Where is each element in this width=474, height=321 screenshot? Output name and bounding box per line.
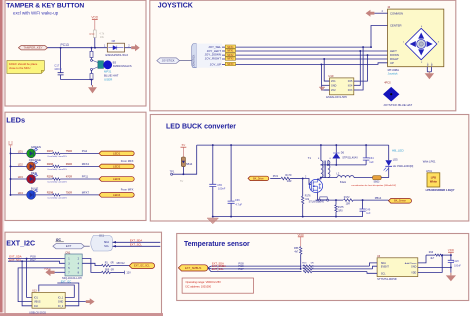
svg-text:SCL: SCL [104,245,109,248]
svg-text:IO_1: IO_1 [58,296,64,299]
junction D6 rail [335,144,337,146]
USBLC6 right stub row1 up [39,285,75,297]
svg-text:100nF: 100nF [454,265,461,268]
svg-text:1R0: 1R0 [338,210,343,213]
wire D6 anode horizontal [320,164,366,166]
svg-text:JOYSTICK: JOYSTICK [193,54,196,66]
svg-text:From MFX: From MFX [121,159,134,163]
svg-text:GND: GND [331,84,337,87]
wire resistor to net label LED1 [60,152,99,154]
MOSFET body diode [319,183,321,189]
net label BK_Sense oval [389,199,412,204]
svg-text:0R: 0R [111,268,114,271]
wire pulldown to bottom rail [302,204,304,217]
svg-text:BLUE: BLUE [31,187,38,191]
resistor R1 i2c [102,264,111,266]
wire C49 branch upper [362,200,364,209]
joystick arrow up [418,33,424,39]
wire LED to resistor R297 [36,152,53,154]
MOSFET Q2 circle [309,179,322,192]
LED LD5 symbol [385,160,392,166]
wire JOY_LEFT row [222,50,388,52]
section frame EXT_I2C [5,232,162,314]
svg-text:VDD: VDD [298,233,305,237]
svg-text:I/O3: I/O3 [348,89,353,92]
wire JOY_SEL to CENTER pin [371,26,388,48]
resistor SB9 i2c [102,271,111,273]
pin circle button top [91,59,93,61]
wire FB05 to LED branch [381,177,389,179]
wire R175 branch [335,200,337,205]
svg-text:IO2: IO2 [34,305,39,308]
power arrow VDD CN2 [45,269,54,277]
ESD tap wire UP down to U10 left pin3 [321,64,329,90]
TVS diode D8 symbol [113,46,117,50]
svg-text:LED BUCK converter: LED BUCK converter [166,124,236,131]
wire temp row EXT_SCL right [312,271,367,273]
svg-text:R297: R297 [47,149,54,153]
note operating range box [182,278,253,293]
resistor R16 body [435,254,442,256]
svg-text:I/O1: I/O1 [331,80,336,83]
wire LED to rail [388,145,390,160]
harness entry shape [192,44,197,68]
wire L2 to FB05 [354,177,373,179]
wire temp row EXT_SMBA right [312,268,373,270]
capacitor C66 [228,201,235,203]
svg-text:VDD: VDD [91,16,98,20]
svg-text:LD1: LD1 [18,150,24,154]
wire temp row2 jog to EVENT pin [373,266,378,269]
junction SDA drop [26,258,28,260]
svg-text:COMMON: COMMON [390,11,403,15]
U10 left pin stubs [324,80,329,82]
wire R56 to row2 [300,254,302,269]
wire harness label to harness [180,60,192,62]
ground temp sensor [450,273,452,276]
junction GND C123 line [450,266,452,268]
svg-text:ORANGE: ORANGE [29,158,41,162]
capacitor C17 [58,73,64,75]
svg-text:LEDs: LEDs [6,115,25,124]
svg-text:PF11: PF11 [82,175,89,179]
wire LED to resistor R296 [36,165,53,167]
svg-text:PG2: PG2 [82,149,88,153]
svg-text:JOY_UP: JOY_UP [210,63,221,67]
junction SCL drop [21,260,23,262]
LED LD1 GREEN circle [27,149,36,158]
offsheet arrow TAMPER right [131,44,140,51]
svg-text:VDD: VDD [411,271,416,274]
wire rail to LED LD1 [11,152,27,154]
wire VDD arrow to CN2 [55,271,65,273]
net label EXT_SMBUS oval [178,265,208,271]
svg-text:I/O2: I/O2 [331,89,336,92]
svg-text:SB14: SB14 [186,162,193,166]
svg-text:LED2: LED2 [113,164,121,168]
resistor R179 [281,177,290,180]
svg-text:Curr=5mA, Lum=25%: Curr=5mA, Lum=25% [47,155,67,158]
svg-text:EVENT: EVENT [381,266,390,269]
svg-text:TAMPER_KEY: TAMPER_KEY [23,46,42,50]
junction bottom C65 [212,216,214,218]
svg-text:R299: R299 [47,175,54,179]
CN2 right wire row2 to R1 [82,263,101,265]
wire C66 branch lower [230,203,232,216]
freewheel diode D6 vertical [335,145,337,153]
MOSFET Q2 drain source stubs [313,179,317,192]
svg-text:close to the MCU: close to the MCU [9,66,30,70]
wire SB9 right stub [111,271,125,273]
svg-text:63uH: 63uH [340,180,346,184]
svg-text:U10: U10 [328,74,333,78]
junction R56 row2 [300,268,302,270]
power port LEDs rail [9,141,13,148]
svg-text:4k7: 4k7 [430,257,435,260]
wire R16 row [426,254,435,256]
wire rail to LED LD2 [11,165,27,167]
LED LD2 arrows [34,161,38,164]
net label MFX0 [225,62,235,65]
wire GND row to offsheet arrow [65,301,86,303]
top rail wire [197,144,389,146]
wire fan oval to rows [208,266,211,268]
svg-text:R16: R16 [429,251,434,254]
junction VDD C123 [450,254,452,256]
svg-text:I/O4: I/O4 [348,84,353,87]
junction C65 rail [212,144,214,146]
svg-text:EXT_SCL: EXT_SCL [130,243,142,247]
LED LD1 arrows [34,148,38,151]
wire EXT_SCL to CN2 [8,261,65,263]
junction R175 bottom [335,216,337,218]
wire R175 to bottom rail [335,212,337,217]
svg-text:C65: C65 [217,183,222,187]
svg-text:LD4: LD4 [18,191,24,195]
wire D6 anode down [335,159,337,165]
svg-text:USER: USER [104,78,113,82]
LED LD4 arrows [34,190,38,193]
svg-text:MFX12: MFX12 [117,262,126,265]
joystick arrow right [427,41,433,47]
svg-text:MFX1: MFX1 [227,51,234,53]
svg-text:PC3: PC3 [273,174,279,178]
node junction bottom [91,79,93,81]
LED LD2 ORANGE circle [27,162,36,171]
U10 right pin stubs [354,80,359,82]
blue hat diamond 4PCS [383,87,399,102]
push button B3 body [98,61,104,69]
junction C64 rail [365,144,367,146]
svg-text:12V: 12V [126,272,131,275]
svg-text:LE CW1L224K[D]: LE CW1L224K[D] [393,164,414,168]
svg-text:IO1: IO1 [34,296,39,299]
ESD tap junction RIGHT [323,58,325,60]
svg-text:CENTER: CENTER [390,24,402,28]
svg-text:GREEN: GREEN [31,145,41,149]
svg-text:With LP01: With LP01 [423,160,436,164]
wire T1 secondary bottom to output node [327,177,329,179]
svg-text:LP01: LP01 [426,170,432,173]
connector CN2 box [65,254,82,276]
harness oval EXT [53,244,85,249]
net label LED4 [99,193,134,198]
wire Addr pin right up [418,255,426,263]
net label MFX4 [225,45,235,48]
wire resistor to net label LED4 [60,194,99,196]
svg-text:C123: C123 [453,260,459,263]
svg-text:From MFX: From MFX [121,187,134,191]
offsheet arrow COMMON left [366,10,375,17]
svg-text:PB14: PB14 [375,196,382,200]
svg-text:MFX3: MFX3 [227,59,234,61]
wire R16 to VDD node [442,254,451,256]
bottom rail wire buck [213,216,363,218]
wire C66 branch upper [230,145,232,201]
wire SB14 to node [182,167,184,175]
svg-text:Joystick: Joystick [388,71,399,75]
joystick center button [417,39,426,48]
wire SCL vertical to USBLC6 IO2 [22,261,32,306]
junction LED rail LD1 [10,152,12,154]
svg-text:White: White [430,180,438,184]
net label MFX3 [225,57,235,60]
svg-text:PC13: PC13 [61,43,69,47]
U10 GND pin ground [319,87,325,90]
temp sensor U11 box [377,258,418,277]
svg-text:0R: 0R [311,268,314,270]
wire rail to T1 primary [320,145,322,160]
junction C49 tap [362,199,364,201]
diode SB14 body [181,157,185,167]
wire diode to offsheet arrow [125,47,132,49]
section frame Temperature sensor [177,234,469,301]
svg-text:SDA: SDA [104,241,109,244]
svg-text:USBLC6-2SC6: USBLC6-2SC6 [29,312,46,315]
svg-text:excl with WIFI wake-up: excl with WIFI wake-up [13,11,59,16]
svg-text:I2C1: I2C1 [99,235,105,238]
junction T1 secondary D6 line [327,164,329,166]
wire 5V to diode SB14 [182,147,184,157]
wire temp row3 jog to SCL pin [367,272,377,274]
svg-text:LD5: LD5 [393,157,398,161]
svg-text:MFX7: MFX7 [82,191,90,195]
ground buck [207,218,219,224]
resistor R11 0R [303,268,312,270]
wire gate node to MOSFET gate [303,179,312,185]
wire source row [316,199,344,201]
svg-text:UP: UP [390,61,394,65]
wire T1 secondary top joins D6 line [327,161,329,165]
svg-text:HB_LED: HB_LED [392,149,405,153]
harness funnel EXT_I2C [91,235,113,251]
wire CN2 row3 to VBUS [18,268,65,302]
net label EXT_I2C_SCL oval [129,263,154,269]
svg-text:LED4: LED4 [113,193,121,197]
svg-text:LED3: LED3 [113,177,121,181]
svg-text:VBUS: VBUS [34,301,41,304]
junction gate node [302,178,304,180]
wire R179 to gate node [290,178,303,180]
transformer T1 primary winding [321,161,323,178]
wire C123 lower [450,263,452,273]
junction output node [320,177,322,179]
junction 5V node [182,173,184,175]
svg-text:Operating range: VDD0=2.25V: Operating range: VDD0=2.25V [186,280,222,284]
ESD tap junction SEL [362,46,364,48]
section frame JOYSTICK [150,0,456,111]
wire LED to resistor R298 [36,194,53,196]
wire SDA right [113,241,161,243]
svg-text:LED1: LED1 [113,151,121,155]
junction LED rail LD2 [10,165,12,167]
svg-text:Curr=5mA, Lum=25%: Curr=5mA, Lum=25% [47,196,67,199]
svg-text:JOYSTICK: JOYSTICK [162,59,175,63]
svg-text:360R: 360R [66,162,72,166]
wire left branch down to capacitor [60,48,62,73]
LP01 label box [427,173,440,187]
svg-text:MFX4: MFX4 [227,47,234,49]
CN2 right wire row1 to SB9 [82,259,101,273]
svg-text:STPS1L40AY: STPS1L40AY [342,156,358,160]
ground joystick MT [428,72,430,74]
joystick switch box [388,9,444,67]
svg-text:D8: D8 [112,39,116,43]
svg-text:1uF: 1uF [366,212,371,215]
svg-text:JOY_RIGHT: JOY_RIGHT [205,56,221,60]
ferrite bead FB05 [373,176,382,180]
resistor R176 gate pulldown [302,196,304,204]
svg-text:JOYSTICK: JOYSTICK [158,2,193,9]
wire EXT oval to funnel [84,245,89,247]
svg-text:LD3: LD3 [18,175,24,179]
svg-text:750R: 750R [66,191,72,195]
ESD tap junction DOWN [367,54,369,56]
ESD tap wire SEL down to U10 [359,47,363,90]
net label TAMPER_KEY [19,46,48,50]
svg-text:CN1: CN1 [65,250,71,254]
wire LED branch up [388,167,390,177]
svg-text:EXT_I2C: EXT_I2C [6,239,35,247]
wire C49 branch lower [362,211,364,216]
svg-text:TAMPER & KEY BUTTON: TAMPER & KEY BUTTON [6,2,84,9]
junction VDD pin riser [441,254,443,256]
wire LED to resistor R299 [36,178,53,180]
svg-text:ESDALC6V1-5P6: ESDALC6V1-5P6 [326,95,347,99]
svg-text:RED: RED [31,171,37,175]
svg-text:VDD: VDD [44,266,50,270]
svg-text:Temperature sensor: Temperature sensor [184,241,250,248]
svg-text:EXT_SDA: EXT_SDA [130,238,142,242]
svg-text:EXT_SCL: EXT_SCL [212,267,224,271]
ESD tap wire RIGHT down to U10 left pin1 [324,59,329,81]
svg-text:VDD: VDD [448,248,455,252]
wire C65 branch upper [212,145,214,184]
wire temp row EXT_SDA right [312,265,370,267]
sheet left border strip [0,0,3,313]
wire temp row1 jog to SDA pin [370,263,378,266]
joystick MT pin wires [426,67,428,72]
junction R175 tap [335,199,337,201]
wire resistor to net label LED3 [60,178,99,180]
resistor R172 [344,199,354,202]
wire button bottom down [91,70,93,73]
ground tamper [92,85,94,87]
section frame TAMPER & KEY BUTTON [5,0,146,106]
junction pulldown bottom [302,216,304,218]
wire C123 upper [450,255,452,260]
wire EXT_SDA to CN2 [8,258,65,260]
wire VDD down [94,20,96,30]
LED LD3 RED circle [27,175,36,184]
junction D6 line [335,164,337,166]
svg-text:LPB-M01SRDEB 1.09@7: LPB-M01SRDEB 1.09@7 [426,189,455,192]
svg-text:GND: GND [58,301,64,304]
svg-text:R175: R175 [338,206,344,209]
LED LD3 arrows [34,174,38,177]
section frame LED BUCK converter [150,115,469,222]
ESD tap wire DOWN down to U10 [359,55,368,81]
svg-text:PG8: PG8 [30,255,36,259]
svg-text:R296: R296 [47,162,54,166]
svg-text:I/O5: I/O5 [348,80,353,83]
USBLC6 right stub row3 up [57,283,79,306]
wire VDD pin right riser [418,255,442,272]
svg-text:100nF: 100nF [218,187,226,191]
net label LED3 [99,177,134,182]
capacitor C64 [363,158,370,160]
ESD array U10 box [330,78,354,95]
joystick arrow down [418,49,424,55]
svg-text:5V: 5V [182,143,186,147]
wire MOSFET source down [317,193,319,201]
wire SDA vertical to USBLC6 IO1 [27,259,32,298]
TVS diode D8 box [107,43,124,52]
wire JOY_UP row [222,63,388,65]
svg-text:consideration for heat dissipa: consideration for heat dissipation (350m… [351,184,396,187]
svg-text:KMR231NGLFS: KMR231NGLFS [113,64,132,68]
harness label JOYSTICK oval [157,58,180,63]
wire resistor to net label LED2 [60,165,99,167]
wire T1 primary bottom to MOSFET drain [318,178,321,180]
wire R1 to net label [111,265,130,267]
svg-text:10k: 10k [100,35,105,39]
joystick arrow left [410,41,416,47]
svg-text:LD2: LD2 [18,163,24,167]
svg-text:BK_Sense: BK_Sense [394,200,406,203]
wire C64 upper [365,145,367,158]
resistor R13 0R [303,265,312,267]
wire pins to button body [92,60,98,62]
net label MFX1 [225,49,235,52]
wire button branch upper [91,48,93,51]
svg-text:4k7: 4k7 [294,250,299,253]
svg-text:10R: 10R [287,180,292,183]
svg-text:SB03: SB03 [374,181,381,184]
note 100nF should be placed close to the MCU [7,61,44,74]
net label BK_Drive oval [248,176,269,180]
svg-text:SB9: SB9 [105,268,110,271]
wire C65 branch lower [212,187,214,217]
net label LED2 [99,164,134,169]
svg-text:4PCS: 4PCS [384,82,391,85]
wire output node to L2 [321,177,337,179]
svg-text:T1: T1 [308,156,312,160]
pin circle button bottom [91,68,93,70]
offsheet arrow USB right [86,298,95,305]
node junction VDD branch [94,47,96,49]
wire temp row EXT_SMBA left [211,268,302,270]
